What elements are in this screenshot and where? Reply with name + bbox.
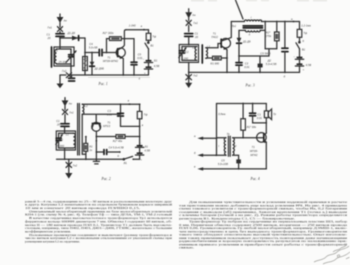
svg-text:Д2: Д2 (267, 58, 272, 62)
svg-text:5,0+4,5В: 5,0+4,5В (266, 62, 277, 66)
svg-text:Тф: Тф (303, 31, 308, 35)
node R1 rail (85, 158, 87, 160)
wire jack to C1 fig3 (188, 25, 190, 31)
wire to diode D1 (60, 37, 85, 39)
svg-text:Рис. 1: Рис. 1 (98, 82, 108, 86)
base wire fig4 (233, 137, 264, 139)
svg-text:а: а (194, 135, 196, 138)
resistor R2 300k (107, 37, 126, 53)
svg-text:С5: С5 (138, 52, 142, 56)
jack Gn2 (66, 73, 71, 78)
collector wire (123, 30, 126, 47)
switch V1 fig2 (123, 156, 134, 160)
transformer core fig3 (243, 26, 262, 28)
jack Gn2 fig3 (186, 72, 192, 82)
antenna An (57, 14, 64, 23)
node a (143, 29, 145, 31)
svg-text:0,01: 0,01 (257, 116, 263, 120)
node mid wire (238, 55, 240, 57)
jack Gn1 fig3 (186, 20, 191, 25)
transformer primary I fig4 (217, 138, 227, 155)
antenna An fig3 (185, 9, 192, 19)
label T1 fig4 (250, 145, 258, 157)
node emitter rail fig3 (226, 72, 228, 74)
node emitter rail fig2 (96, 158, 98, 160)
inductor L2 fig3 (206, 48, 208, 59)
transistor T1 fig2 (92, 122, 101, 136)
svg-text:С1: С1 (257, 113, 261, 117)
antenna An fig2 (62, 98, 69, 107)
svg-text:20: 20 (47, 36, 51, 40)
node C5 top (284, 21, 286, 23)
svg-text:1к: 1к (89, 148, 92, 152)
phone Tf (146, 30, 151, 41)
node C1 tap fig4 (252, 103, 254, 105)
top rail fig2 (82, 103, 139, 105)
svg-text:Б1: Б1 (145, 145, 149, 149)
svg-text:Тф: Тф (152, 34, 157, 38)
tank wires fig3 (182, 47, 197, 73)
bottom rail fig2 (57, 158, 140, 160)
wire antenna to jack (59, 23, 61, 28)
svg-text:С2: С2 (59, 138, 63, 142)
svg-text:−: − (140, 142, 142, 145)
transformer secondary II (245, 30, 260, 32)
bottom rail fig3 (189, 71, 300, 73)
pointer line (236, 0, 244, 19)
node Tf top (139, 103, 141, 105)
svg-text:1,2-1ма: 1,2-1ма (301, 24, 311, 28)
node a fig3 (291, 18, 294, 23)
svg-text:Гн1: Гн1 (193, 21, 198, 25)
svg-text:размещении катушки L2 на серде: размещении катушки L2 на сердечнике. (25, 240, 80, 244)
svg-text:−: − (143, 58, 145, 61)
top rail fig1 (126, 29, 149, 31)
svg-text:МП39-: МП39- (250, 149, 258, 153)
svg-text:Ан: Ан (68, 102, 73, 106)
battery B1 fig3 (293, 49, 304, 73)
svg-text:4,5В: 4,5В (306, 63, 312, 67)
terminal v / bottom rail fig4 (194, 166, 266, 171)
label T1 P422 (211, 32, 218, 40)
wire D1 to C3 (238, 43, 240, 62)
svg-text:С1: С1 (195, 32, 199, 36)
svg-text:Гн2: Гн2 (193, 74, 198, 78)
svg-text:С3: С3 (107, 109, 111, 113)
wire v to battery (139, 126, 141, 145)
jack Gn1 (57, 27, 62, 32)
transistor T1 fig4 (257, 133, 267, 143)
capacitor C3 below rail (69, 75, 75, 81)
ground fig2 (65, 173, 72, 179)
svg-text:емников прямого усиления и при: емников прямого усиления и приобрести оп… (179, 242, 348, 246)
variable capacitor C2 fig3 (179, 47, 187, 61)
svg-text:С3: С3 (245, 62, 249, 66)
svg-text:Рис. 3: Рис. 3 (245, 83, 255, 87)
svg-text:Б1: Б1 (154, 58, 158, 62)
L2 bottom wire (82, 114, 120, 123)
svg-text:в: в (142, 124, 144, 127)
svg-text:Тр1: Тр1 (232, 24, 237, 28)
svg-text:связью.: связью. (179, 246, 194, 250)
node R2 tap (106, 52, 108, 54)
resistor R2 270k (265, 22, 279, 49)
node C5 bottom (133, 74, 135, 76)
wire R2 down (268, 49, 270, 56)
svg-text:б: б (194, 151, 196, 155)
resistor R1 (83, 53, 88, 76)
node R2 right (139, 136, 141, 138)
capacitor C1 fig3 (185, 34, 193, 37)
tank internal bottom wire (57, 64, 72, 75)
label C5 (137, 52, 143, 59)
svg-text:Гн1: Гн1 (69, 110, 74, 114)
svg-text:II: II (235, 144, 237, 148)
svg-text:Д1 Д9: Д1 Д9 (242, 40, 251, 44)
emitter wire fig3 (226, 50, 228, 73)
node emitter fig2 (96, 136, 98, 138)
svg-text:Гр: Гр (273, 112, 276, 116)
collector wire fig3 (228, 22, 231, 39)
wire jack to C1 fig2 (64, 115, 66, 124)
svg-text:Т1: Т1 (107, 55, 111, 59)
svg-text:Ан: Ан (63, 19, 68, 23)
svg-text:а: а (291, 18, 293, 21)
left vertical fig4 (216, 104, 218, 156)
svg-text:Д1 Д9: Д1 Д9 (67, 31, 76, 35)
label C3 fig3 (244, 62, 250, 69)
tank wires fig2 (59, 126, 74, 160)
ground (57, 84, 64, 89)
node R1 base (242, 137, 244, 139)
capacitor C5 (124, 39, 136, 75)
jack Gn1 fig2 (62, 109, 67, 114)
svg-text:С4 5,0+4,5В: С4 5,0+4,5В (109, 146, 124, 150)
label C2 fig3 (181, 50, 189, 60)
svg-text:Гн1: Гн1 (48, 26, 53, 30)
svg-text:Ан: Ан (191, 13, 196, 17)
node R1 emitter (226, 57, 228, 59)
resistor R1 680 (206, 56, 227, 60)
resistor R2 40k (96, 135, 139, 139)
svg-text:МП42: МП42 (250, 153, 258, 157)
inductor L1 (55, 50, 57, 64)
svg-text:R1 680: R1 680 (210, 62, 219, 66)
diode D1 fig3 (237, 38, 242, 43)
tank box (54, 47, 74, 66)
svg-text:Гн2: Гн2 (73, 163, 78, 167)
node wire R1 (85, 136, 87, 138)
label B1 fig2 (144, 145, 150, 153)
secondary right lead (260, 29, 265, 31)
svg-text:б: б (117, 154, 119, 158)
label R1 1k (89, 144, 93, 152)
inductor L1 fig2 (73, 133, 75, 148)
secondary left lead (239, 30, 245, 37)
capacitor C3 fig2 (118, 104, 124, 126)
phone Tf fig2 (137, 104, 142, 126)
node C3 top (120, 103, 122, 105)
svg-text:МП39-МП42: МП39-МП42 (103, 59, 119, 63)
label T1 MP39-MP42 (103, 55, 119, 63)
variable capacitor C2 fig2 (56, 133, 63, 148)
label C4 (89, 42, 98, 49)
bottom rail fig1 (60, 74, 149, 76)
svg-text:25-300: 25-300 (55, 144, 65, 148)
svg-text:МП13: МП13 (103, 124, 111, 128)
svg-text:270к: 270к (264, 34, 271, 38)
svg-text:20: 20 (194, 35, 198, 39)
svg-text:5,0+5В: 5,0+5В (89, 46, 98, 50)
transformer primary I (231, 20, 261, 21)
svg-text:Т1: Т1 (252, 145, 256, 149)
node v fig2 (139, 124, 144, 127)
wire sec to mid (264, 22, 266, 49)
capacitor C1 (56, 34, 64, 37)
diode D2 D9B (90, 53, 95, 76)
svg-text:4,5В: 4,5В (154, 64, 160, 68)
wire D1 to base node (84, 38, 86, 53)
inductor L1 fig3 (195, 47, 197, 61)
svg-text:В1: В1 (302, 47, 306, 51)
svg-text:0,01: 0,01 (244, 65, 250, 69)
svg-text:С2: С2 (185, 50, 189, 54)
svg-text:а: а (141, 25, 143, 28)
electrolytic C5 fig4 (233, 155, 241, 169)
label C1 fig3 (194, 32, 199, 40)
wire C4 to base (102, 52, 118, 54)
svg-text:5,0+10В: 5,0+10В (218, 162, 228, 166)
svg-text:R2* 300к: R2* 300к (103, 31, 115, 35)
svg-text:R2*: R2* (266, 31, 271, 35)
node emitter rail (122, 74, 124, 76)
label C4 fig3 (266, 58, 277, 66)
tank box fig2 (56, 131, 75, 150)
capacitor C4 (99, 49, 102, 55)
svg-text:С1: С1 (47, 33, 51, 37)
tank internal top wire (57, 47, 72, 55)
ferrite core L1 (51, 47, 53, 67)
svg-text:С5 5800: С5 5800 (260, 51, 271, 55)
label C2 fig2 (55, 138, 65, 148)
wire C1 to tank fig3 (188, 36, 190, 44)
battery B1 (143, 49, 153, 76)
terminal a fig4 (194, 135, 217, 140)
variable capacitor C2 (66, 50, 77, 64)
svg-text:б: б (284, 74, 286, 78)
capacitor C1 fig4 (250, 104, 267, 123)
node C5 bottom (284, 72, 286, 74)
wire C3 to Tf bottom (121, 125, 140, 127)
speaker Gr (264, 104, 271, 134)
capacitor C3 fig3 (236, 63, 242, 73)
node C4 rail fig3 (259, 72, 261, 74)
node tank bottom (70, 74, 72, 76)
svg-text:в: в (194, 166, 196, 169)
electrolytic C4 (258, 56, 263, 72)
emitter wire fig4 (265, 142, 267, 169)
svg-text:В1: В1 (124, 161, 128, 165)
node C5 rail (238, 168, 240, 170)
node D2 top (91, 52, 93, 54)
svg-text:+: + (303, 69, 305, 72)
svg-text:Рис. 2: Рис. 2 (101, 177, 111, 181)
right text column (179, 200, 348, 250)
phone Tf fig3 (297, 22, 302, 38)
wire C1 to tank (59, 36, 61, 47)
svg-text:Рис. 4: Рис. 4 (250, 177, 260, 181)
wire emitter down (95, 137, 97, 160)
transformer core fig4 (228, 136, 230, 156)
label C5 fig4 (218, 158, 228, 166)
svg-text:П422: П422 (211, 35, 218, 39)
svg-text:а: а (128, 100, 130, 103)
wire antenna jack fig2 (64, 106, 66, 110)
svg-text:+: + (140, 158, 142, 161)
svg-text:Тр: Тр (227, 132, 231, 136)
switch V1 (145, 40, 149, 48)
tank box fig3 (179, 45, 198, 63)
label R2 270k (264, 31, 271, 39)
svg-text:С1: С1 (56, 119, 60, 123)
mid wire fig3 (239, 55, 269, 57)
svg-text:0,8ма: 0,8ма (218, 112, 226, 116)
node a junction (216, 137, 218, 139)
svg-text:С4: С4 (89, 42, 93, 46)
left text column (25, 199, 173, 243)
diode D1 D9 (72, 36, 79, 41)
top rail fig3 (261, 21, 299, 23)
top wire fig4 (217, 103, 267, 105)
svg-text:В1: В1 (150, 44, 154, 48)
terminal b fig4 (194, 151, 226, 157)
node C3 rail fig3 (238, 72, 240, 74)
resistor R1 68k fig4 (241, 104, 246, 138)
svg-text:Т1: Т1 (213, 32, 217, 36)
jack Gn2 fig2 (66, 159, 72, 173)
resistor R1 1k (84, 137, 88, 160)
battery B1 fig2 (135, 142, 143, 161)
svg-text:Гн2: Гн2 (62, 69, 67, 73)
svg-text:4,5В: 4,5В (144, 149, 150, 153)
emitter wire (122, 59, 124, 75)
pencil squiggle bottom right (314, 246, 350, 265)
capacitor C1 fig2 (61, 124, 69, 127)
transistor T1 (116, 47, 125, 59)
node R1 top fig4 (242, 103, 244, 105)
transistor T1 fig3 (221, 38, 231, 49)
ground wire (59, 75, 61, 84)
base wire fig3 (206, 44, 221, 48)
label current 1-340 (129, 24, 143, 29)
capacitor C5 5800 (282, 22, 288, 73)
base wire (85, 52, 99, 54)
svg-text:Тф: Тф (144, 112, 149, 116)
ghost scan line (88, 76, 150, 78)
inductor L2 fig2 (82, 104, 86, 154)
svg-text:R1* 68к: R1* 68к (247, 125, 257, 129)
svg-text:б: б (302, 39, 304, 43)
label C1 fig4 (257, 113, 263, 121)
label T1 MP13 (103, 121, 111, 129)
svg-text:II: II (249, 33, 251, 37)
svg-text:R2* 40к: R2* 40к (113, 139, 123, 143)
transformer secondary II fig4 (233, 138, 235, 155)
node R1 top (84, 52, 86, 54)
node junction C1/D1 (59, 37, 61, 39)
node C4 tap (96, 151, 98, 153)
label C1 fig2 (56, 119, 60, 126)
svg-text:R1: R1 (89, 144, 93, 148)
ground fig3 (185, 83, 192, 88)
label C1 20 (47, 33, 51, 40)
wire antenna jack fig3 (188, 18, 190, 21)
svg-text:I: I (251, 16, 252, 20)
node sec top (264, 21, 266, 23)
label C3 fig2 (107, 109, 113, 117)
svg-text:Т1: Т1 (107, 121, 111, 125)
ferrite rod fig2 (78, 104, 80, 156)
label B1 4.5V (154, 58, 160, 67)
svg-text:1-340: 1-340 (129, 24, 136, 28)
faint top edge fragment (191, 0, 327, 1)
node C1 bottom fig4 (265, 122, 267, 124)
svg-text:Д2 Д9Б: Д2 Д9Б (94, 67, 105, 71)
electrolytic C4 fig2 (96, 150, 120, 155)
svg-text:I: I (218, 144, 219, 148)
wire jack to C1 (59, 32, 61, 34)
svg-text:0,01: 0,01 (107, 113, 113, 117)
ferrite core fig3 (201, 45, 203, 63)
svg-text:20: 20 (56, 122, 60, 126)
svg-text:С5: С5 (221, 158, 225, 162)
svg-text:−: − (293, 55, 295, 58)
switch V1 fig3 (296, 37, 300, 48)
